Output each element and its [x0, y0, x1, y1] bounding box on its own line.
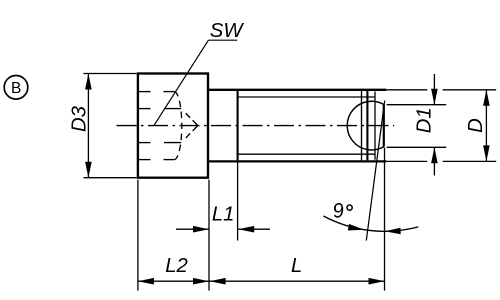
thread end line	[361, 91, 363, 161]
svg-text:L1: L1	[212, 203, 235, 225]
dimension D1 line	[433, 74, 435, 105]
thread start line	[237, 91, 239, 161]
label 9 degrees	[331, 200, 345, 223]
extension line tip	[384, 148, 386, 291]
screw head outline	[138, 74, 208, 178]
chamfer line	[374, 92, 376, 160]
angle dimension arc 9 degrees	[323, 216, 418, 231]
dimension D3 line	[87, 74, 89, 178]
extension line head right	[208, 180, 210, 291]
svg-text:B: B	[11, 80, 21, 97]
svg-text:D1: D1	[414, 107, 436, 133]
dimension D1 extension lines	[387, 104, 447, 106]
ball arc	[347, 101, 384, 150]
svg-text:D: D	[465, 118, 487, 133]
flat tip face	[383, 105, 385, 147]
dimension line L2 and L	[138, 280, 385, 282]
dimension L1 line	[176, 228, 209, 230]
svg-text:L: L	[291, 255, 302, 277]
svg-text:L2: L2	[165, 255, 188, 277]
thread minor diameter lines	[239, 96, 375, 98]
shank major diameter lines	[209, 89, 386, 91]
svg-text:D3: D3	[69, 105, 91, 132]
centerline	[117, 125, 395, 127]
ball land line	[366, 91, 368, 161]
view marker circle B	[4, 76, 28, 100]
dimension D extension lines	[386, 89, 427, 91]
extension line head left	[137, 180, 139, 291]
svg-text:SW: SW	[210, 20, 245, 42]
dimension D line	[485, 90, 487, 162]
9 degree tilt line	[366, 101, 384, 241]
leader line SW	[154, 40, 208, 125]
hex socket hidden lines	[139, 92, 198, 160]
dimension D3 extension lines	[84, 73, 137, 75]
dimension L1 extension line	[237, 161, 239, 240]
